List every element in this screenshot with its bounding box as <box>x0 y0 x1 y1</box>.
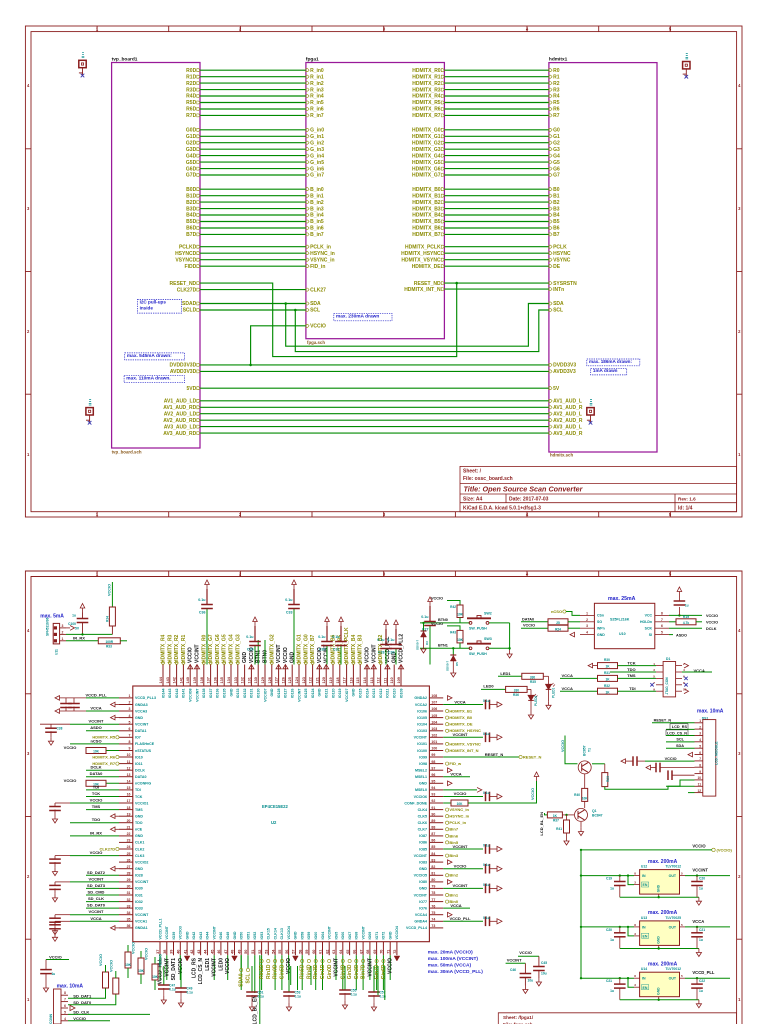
svg-text:G7: G7 <box>553 173 560 179</box>
hier label Bin5 <box>446 841 449 844</box>
pin 34 VCCINT <box>119 914 133 916</box>
junction <box>619 977 621 979</box>
svg-text:VCCINT: VCCINT <box>507 957 522 962</box>
capacitor C <box>380 645 392 649</box>
pin 88 CLK7 <box>429 828 443 830</box>
wire VCCIO <box>127 945 129 952</box>
pin 28 IO28 <box>119 874 133 876</box>
wire R3D <box>200 89 306 91</box>
svg-text:141: 141 <box>179 677 183 683</box>
ground GND <box>45 984 47 988</box>
wire VCCINT <box>70 723 119 725</box>
svg-text:HDMITX_R6: HDMITX_R6 <box>92 754 115 759</box>
svg-text:14: 14 <box>127 780 131 784</box>
svg-text:max. 545mA drawn:: max. 545mA drawn: <box>127 353 172 359</box>
svg-text:I2C pull-ups: I2C pull-ups <box>140 299 167 304</box>
wire Gin6D <box>382 955 384 990</box>
svg-text:max. 25mA: max. 25mA <box>608 596 636 602</box>
svg-text:HDMITX_VSYNC: HDMITX_VSYNC <box>449 741 480 746</box>
svg-text:R6D: R6D <box>186 107 196 113</box>
svg-text:RESET_ND: RESET_ND <box>170 281 197 287</box>
svg-text:AV3_AUD_L: AV3_AUD_L <box>553 424 582 430</box>
svg-text:D1: D1 <box>666 657 670 661</box>
svg-text:75: 75 <box>431 911 435 915</box>
svg-text:IO11: IO11 <box>135 762 143 766</box>
svg-text:96: 96 <box>431 773 435 777</box>
wire Gin1D <box>322 955 324 990</box>
pin 65 IO67 <box>349 942 351 956</box>
svg-text:3: 3 <box>634 881 636 885</box>
svg-text:SCL: SCL <box>310 308 320 314</box>
svg-text:7: 7 <box>699 757 701 761</box>
svg-text:IO125: IO125 <box>304 689 308 699</box>
svg-text:92: 92 <box>431 799 435 803</box>
svg-text:68: 68 <box>366 950 370 954</box>
svg-text:TMS: TMS <box>627 673 636 678</box>
capacitor C <box>49 925 61 929</box>
svg-text:GND: GND <box>657 987 661 995</box>
svg-text:AVDD3V3: AVDD3V3 <box>553 369 576 375</box>
label Rin1D <box>267 959 270 962</box>
wire B4D <box>200 214 306 216</box>
svg-text:B6: B6 <box>553 226 560 232</box>
capacitor C <box>486 700 490 710</box>
wire 5V <box>200 387 549 389</box>
pin 106 IO106 <box>429 710 443 712</box>
svg-text:IO52: IO52 <box>253 932 257 940</box>
pin 1 VCCD_PLL3 <box>119 697 133 699</box>
svg-text:max. 110mA drawn.: max. 110mA drawn. <box>126 376 170 382</box>
svg-text:GNDA3: GNDA3 <box>135 703 148 707</box>
resistor R <box>522 673 544 679</box>
svg-text:IO124: IO124 <box>311 689 315 699</box>
svg-text:AV2_AUD_LD: AV2_AUD_LD <box>164 411 197 417</box>
svg-text:B_in2: B_in2 <box>310 200 324 206</box>
wire VCCIO drop <box>111 582 113 607</box>
svg-text:IO80: IO80 <box>419 880 427 884</box>
svg-text:VCCD_PLL3: VCCD_PLL3 <box>135 696 156 700</box>
svg-text:0.1u: 0.1u <box>483 916 490 920</box>
capacitor C <box>520 974 532 978</box>
svg-text:VCCINT: VCCINT <box>414 736 428 740</box>
wire Rin0D <box>274 955 276 990</box>
wire HDMITX_B3 <box>444 208 549 210</box>
svg-text:IN: IN <box>642 977 646 981</box>
svg-text:VCCINT: VCCINT <box>212 958 218 977</box>
svg-text:VCCIO: VCCIO <box>706 614 718 618</box>
FPGA U2 EP4CE15E22 <box>133 686 430 942</box>
transistor Q <box>578 761 591 774</box>
wire nCSO <box>70 743 119 745</box>
svg-text:GND: GND <box>233 931 237 939</box>
wire C55 lead <box>344 966 346 990</box>
wire ASDO <box>669 634 673 636</box>
svg-text:HDMITX_B4: HDMITX_B4 <box>351 634 357 663</box>
junction <box>455 282 458 285</box>
svg-text:IO138: IO138 <box>202 689 206 699</box>
svg-text:fpga1: fpga1 <box>306 57 319 63</box>
svg-text:G5: G5 <box>553 160 560 166</box>
pin 98 IO98 <box>429 763 443 765</box>
svg-text:HDMITX_INT_N: HDMITX_INT_N <box>404 287 441 293</box>
svg-text:10K: 10K <box>582 796 589 800</box>
svg-text:50: 50 <box>244 950 248 954</box>
pin 94 MSEL0 <box>429 789 443 791</box>
capacitor C <box>49 885 61 889</box>
svg-text:HSYNC_in: HSYNC_in <box>449 814 469 819</box>
svg-text:0.1u: 0.1u <box>483 883 490 887</box>
svg-text:CLK6: CLK6 <box>418 821 427 825</box>
svg-text:63: 63 <box>332 950 336 954</box>
wire Gin5D <box>281 955 283 990</box>
svg-text:D3: D3 <box>425 641 429 645</box>
svg-text:B_in7: B_in7 <box>310 232 324 238</box>
svg-text:C35: C35 <box>247 648 254 652</box>
wire HDMITX_VSYNC <box>444 259 549 261</box>
ground GND <box>566 837 568 841</box>
svg-text:HDMITX_G1: HDMITX_G1 <box>412 134 441 140</box>
svg-text:VCCIO2: VCCIO2 <box>135 860 148 864</box>
wire DATA0 <box>521 621 548 623</box>
wire Bin7D <box>362 955 364 990</box>
svg-text:IO44: IO44 <box>206 932 210 940</box>
svg-text:36: 36 <box>127 924 131 928</box>
svg-text:88: 88 <box>431 826 435 830</box>
resistor R <box>125 952 131 968</box>
wire HDMITX_G6 <box>444 168 549 170</box>
wire DATA0 <box>568 621 580 623</box>
pin 93 VCCIO6 <box>429 796 443 798</box>
svg-text:SCLD: SCLD <box>183 308 197 314</box>
pin 130 IO130 <box>257 665 259 687</box>
svg-text:IO32: IO32 <box>135 900 143 904</box>
svg-text:R23: R23 <box>606 776 610 782</box>
svg-text:IO59: IO59 <box>307 932 311 940</box>
ground GND <box>163 996 165 1000</box>
svg-text:GND: GND <box>135 867 143 871</box>
capacitor C57 <box>368 992 380 996</box>
pin 111 IO111 <box>386 665 388 687</box>
svg-text:G_in0: G_in0 <box>310 128 324 134</box>
svg-text:C38: C38 <box>57 727 63 731</box>
svg-text:38: 38 <box>163 950 167 954</box>
svg-text:R5D: R5D <box>186 100 196 106</box>
svg-text:VCCIO5: VCCIO5 <box>414 874 427 878</box>
svg-text:15: 15 <box>127 786 131 790</box>
svg-text:2: 2 <box>699 725 701 729</box>
svg-text:IO110: IO110 <box>393 689 397 699</box>
svg-text:4: 4 <box>64 1017 66 1021</box>
svg-text:JTAG_CON: JTAG_CON <box>665 677 669 695</box>
wire SDA route <box>286 304 549 347</box>
junction <box>580 849 582 851</box>
svg-text:40: 40 <box>177 950 181 954</box>
pin 70 IO72 <box>382 942 384 956</box>
label Gin6D <box>382 959 385 962</box>
svg-text:B7: B7 <box>553 232 560 238</box>
svg-text:GNDA2: GNDA2 <box>414 696 427 700</box>
svg-text:TLV70012: TLV70012 <box>665 967 681 971</box>
svg-text:VSYNC: VSYNC <box>553 257 571 263</box>
svg-text:8: 8 <box>699 764 701 768</box>
svg-text:DCLK: DCLK <box>706 627 717 631</box>
wire HDMITX_R7 <box>444 114 549 116</box>
label Rin0D <box>274 959 277 962</box>
ground GND <box>548 701 550 705</box>
wire SD_DAT3 <box>86 887 119 889</box>
resistor R <box>103 972 109 988</box>
svg-text:VCCD_PLL: VCCD_PLL <box>85 692 107 697</box>
wire HDMITX_DE <box>444 265 549 267</box>
wire bl drop <box>259 955 261 1024</box>
wire gnd tie <box>620 948 699 950</box>
svg-text:VCCINT: VCCINT <box>453 883 468 888</box>
svg-text:127: 127 <box>275 677 279 683</box>
svg-text:AV1_AUD_L: AV1_AUD_L <box>553 399 582 405</box>
svg-text:HDMITX_R2: HDMITX_R2 <box>412 81 441 87</box>
svg-text:30: 30 <box>127 885 131 889</box>
transistor Q <box>575 808 588 821</box>
svg-text:TMS: TMS <box>92 804 101 809</box>
label Gin4D <box>341 959 344 962</box>
svg-text:DATA1: DATA1 <box>135 729 146 733</box>
pin 122 IO124 <box>312 665 314 687</box>
svg-text:8: 8 <box>129 740 131 744</box>
svg-text:C46: C46 <box>510 968 516 972</box>
svg-text:CLK27: CLK27 <box>310 287 326 293</box>
svg-text:File: ossc_board.sch: File: ossc_board.sch <box>463 476 513 482</box>
svg-text:0.1u: 0.1u <box>351 993 357 997</box>
regulator U12 TLV70012 <box>640 870 680 895</box>
svg-text:IO112: IO112 <box>379 689 383 699</box>
svg-text:G_in2: G_in2 <box>310 140 324 146</box>
wire C29 <box>395 649 397 665</box>
wire VCCD_PLL <box>86 697 119 699</box>
wire HDMITX_B4 <box>444 214 549 216</box>
svg-text:C30: C30 <box>319 648 326 652</box>
svg-text:AV2_AUD_RD: AV2_AUD_RD <box>163 418 196 424</box>
svg-text:LCD_RS: LCD_RS <box>191 957 197 978</box>
wire B0D <box>200 188 306 190</box>
svg-text:HDMITX_G4: HDMITX_G4 <box>412 153 441 159</box>
svg-text:nCSO: nCSO <box>90 738 101 743</box>
svg-text:IO51: IO51 <box>246 932 250 940</box>
pin 119 IO120 <box>332 665 334 687</box>
svg-text:HDMITX_G3: HDMITX_G3 <box>235 634 241 663</box>
svg-text:HDMITX_HSYNC: HDMITX_HSYNC <box>401 251 441 257</box>
svg-text:62: 62 <box>325 950 329 954</box>
svg-text:IO10: IO10 <box>135 755 143 759</box>
svg-text:Rin0D: Rin0D <box>273 964 279 979</box>
svg-text:104: 104 <box>431 720 437 724</box>
pin 22 GND <box>119 835 133 837</box>
svg-text:73: 73 <box>431 924 435 928</box>
junction <box>508 647 510 649</box>
svg-text:IR_RX: IR_RX <box>90 830 102 835</box>
wire AV2_AUD_LD <box>200 413 549 415</box>
power flag PWR_FLAG <box>590 400 593 405</box>
pin 53 CLK15 <box>267 942 269 956</box>
svg-text:99: 99 <box>431 753 435 757</box>
svg-text:VCCIO: VCCIO <box>706 621 718 625</box>
svg-text:Sheet: /fpga1/: Sheet: /fpga1/ <box>503 1015 534 1020</box>
svg-text:39: 39 <box>170 950 174 954</box>
pin 60 IO60 <box>315 942 317 956</box>
wire BTN1 <box>420 647 470 649</box>
svg-text:108: 108 <box>431 694 437 698</box>
svg-text:33: 33 <box>127 904 131 908</box>
pin 3 VCCA3 <box>119 710 133 712</box>
wire VCCIO <box>288 955 290 980</box>
svg-text:R_in4: R_in4 <box>310 94 324 100</box>
wire HDMITX_B2 <box>444 201 549 203</box>
svg-text:IO119: IO119 <box>338 689 342 699</box>
svg-text:IO98: IO98 <box>419 762 427 766</box>
wire VCCINT <box>506 962 526 964</box>
svg-text:VCCD_PLL: VCCD_PLL <box>449 916 471 921</box>
svg-text:41: 41 <box>183 950 187 954</box>
svg-text:OUT: OUT <box>669 977 677 981</box>
junction <box>81 633 83 635</box>
svg-text:IO33: IO33 <box>135 906 143 910</box>
pin 57 GND <box>294 942 296 956</box>
hier label HDMITX_INT_N <box>446 749 449 752</box>
resistor R <box>582 788 588 801</box>
svg-text:4.7k: 4.7k <box>683 621 689 625</box>
svg-text:B0: B0 <box>553 187 560 193</box>
capacitor C <box>49 859 61 863</box>
wire VCCIO <box>669 614 702 616</box>
power VCC <box>677 587 682 592</box>
svg-text:111: 111 <box>383 678 387 684</box>
svg-text:Bin7D: Bin7D <box>361 964 367 979</box>
wire CONF_DONE <box>443 802 451 804</box>
wire CLK27D <box>200 289 306 291</box>
svg-text:B2D: B2D <box>186 200 196 206</box>
wire B2D <box>200 201 306 203</box>
label Rin2D <box>260 959 263 962</box>
svg-text:GND: GND <box>419 782 427 786</box>
wire VCCA <box>70 920 119 922</box>
svg-text:FLASHnCE: FLASHnCE <box>135 742 155 746</box>
svg-text:VSYNC_in: VSYNC_in <box>449 807 469 812</box>
capacitor C <box>656 763 660 773</box>
wire DCLK <box>669 627 702 629</box>
svg-text:VCCIO: VCCIO <box>431 622 443 626</box>
svg-text:131: 131 <box>247 677 251 683</box>
svg-text:SCK: SCK <box>645 627 653 631</box>
svg-text:SW2: SW2 <box>484 612 492 616</box>
svg-text:R31: R31 <box>604 671 610 675</box>
capacitor C <box>335 642 347 646</box>
svg-text:GND: GND <box>389 931 393 939</box>
svg-text:1u: 1u <box>699 938 703 942</box>
svg-text:IO58: IO58 <box>301 932 305 940</box>
label Gin1D <box>321 959 324 962</box>
connector J2 SD card <box>54 989 62 1024</box>
wire T1 c <box>592 763 605 765</box>
svg-text:C21: C21 <box>699 928 705 932</box>
svg-text:TLV70012: TLV70012 <box>665 865 681 869</box>
pin 138 IO138 <box>203 665 205 687</box>
svg-text:B1D: B1D <box>186 193 196 199</box>
svg-text:10u: 10u <box>541 972 547 976</box>
junction <box>580 874 582 876</box>
svg-text:VCCA4: VCCA4 <box>415 913 427 917</box>
wire VCCIO <box>518 955 539 957</box>
svg-text:70: 70 <box>380 950 384 954</box>
junction <box>627 926 629 928</box>
svg-text:HDMITX_G4: HDMITX_G4 <box>229 634 235 663</box>
pin 90 CLK5 <box>429 815 443 817</box>
wire IR pwr <box>66 633 112 635</box>
LED D4 <box>528 695 534 700</box>
svg-text:AV1_AUD_LD: AV1_AUD_LD <box>164 399 197 405</box>
svg-text:VCCINT: VCCINT <box>414 893 428 897</box>
wire SD_CLK <box>86 901 119 903</box>
wire reg input rail <box>580 850 582 978</box>
wire C57 lead <box>373 966 375 992</box>
svg-text:Bin7: Bin7 <box>449 827 458 832</box>
junction <box>452 647 454 649</box>
wire SDA left <box>200 303 306 305</box>
svg-text:HDMITX_B0: HDMITX_B0 <box>449 715 472 720</box>
wire VCCIO <box>645 760 695 762</box>
svg-text:LED1: LED1 <box>205 958 211 971</box>
pin 69 IO71 <box>376 942 378 956</box>
svg-text:R_in1: R_in1 <box>310 74 324 80</box>
junction <box>619 926 621 928</box>
svg-text:1u: 1u <box>610 938 614 942</box>
svg-text:119: 119 <box>329 677 333 683</box>
svg-text:LCD_BL_EN: LCD_BL_EN <box>539 812 544 836</box>
svg-text:TDO: TDO <box>92 817 100 822</box>
ground GND <box>50 737 52 741</box>
svg-text:97: 97 <box>431 766 435 770</box>
svg-text:1u: 1u <box>52 972 56 976</box>
wire AV1_AUD_RD <box>200 406 549 408</box>
hier label Bin6 <box>446 834 449 837</box>
svg-text:6: 6 <box>129 727 131 731</box>
svg-text:12: 12 <box>127 766 131 770</box>
global label LCD_RS <box>670 724 688 730</box>
ground GND <box>423 645 425 649</box>
svg-text:R32: R32 <box>604 684 610 688</box>
pin 99 IO99 <box>429 756 443 758</box>
capacitor C <box>40 970 52 974</box>
svg-text:1u: 1u <box>685 604 689 608</box>
power pwr <box>646 765 651 770</box>
svg-text:VCCINT: VCCINT <box>334 958 340 977</box>
svg-text:VCCINT: VCCINT <box>453 844 468 849</box>
svg-text:56: 56 <box>285 950 289 954</box>
wire WPn net <box>568 627 580 629</box>
pin 102 VCCINT <box>429 736 443 738</box>
svg-text:TDI: TDI <box>135 788 141 792</box>
svg-text:135: 135 <box>220 677 224 683</box>
wire BTN1 <box>257 640 259 665</box>
svg-text:VCCINT: VCCINT <box>89 909 104 914</box>
wire HDMITX_G7 <box>444 174 549 176</box>
capacitor C <box>668 770 672 780</box>
svg-text:35: 35 <box>127 918 131 922</box>
svg-text:GND: GND <box>229 688 233 696</box>
svg-text:34: 34 <box>127 911 131 915</box>
svg-text:fpga.sch: fpga.sch <box>307 340 325 345</box>
resistor R <box>451 800 468 806</box>
svg-text:9: 9 <box>129 747 131 751</box>
pin 107 VCCA2 <box>429 704 443 706</box>
